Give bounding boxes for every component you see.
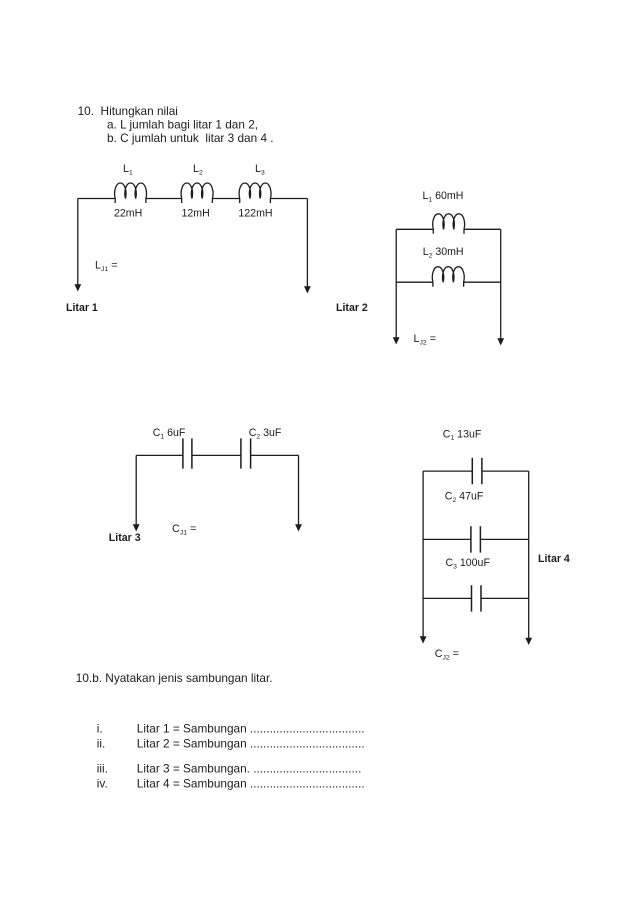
svg-text:10.b. Nyatakan jenis sambungan: 10.b. Nyatakan jenis sambungan litar.: [76, 671, 273, 685]
wire: Litar 4 left vertical with arrow: [422, 471, 424, 637]
inductor L2 (30mH): [432, 267, 464, 287]
svg-text:i.: i.: [97, 722, 103, 736]
svg-text:Litar 4: Litar 4: [538, 553, 570, 565]
wire: Litar 1 left vertical with arrow: [77, 199, 79, 286]
svg-text:L2 30mH: L2 30mH: [423, 246, 464, 259]
svg-text:122mH: 122mH: [238, 208, 272, 220]
svg-text:ii.: ii.: [97, 736, 106, 750]
svg-text:b. C jumlah untuk litar 3 dan: b. C jumlah untuk litar 3 dan 4 .: [107, 131, 274, 145]
wire: Litar 2 top branch horizontals: [396, 228, 501, 230]
svg-text:CJ1 =: CJ1 =: [172, 523, 196, 537]
svg-text:LJ2 =: LJ2 =: [414, 333, 437, 347]
svg-text:C2 3uF: C2 3uF: [249, 427, 282, 440]
wire: Litar 1 right vertical with arrow: [306, 199, 308, 288]
svg-text:iii.: iii.: [97, 761, 108, 775]
wire: Litar 3 horizontal segments: [136, 454, 298, 456]
svg-text:C1 13uF: C1 13uF: [443, 428, 482, 441]
svg-text:a. L jumlah bagi litar 1 dan 2: a. L jumlah bagi litar 1 dan 2,: [107, 118, 258, 132]
svg-text:LJ1 =: LJ1 =: [95, 260, 118, 274]
capacitor C2 plates: [241, 438, 251, 468]
wire: Litar 2 right vertical with arrow: [500, 229, 502, 339]
svg-text:Litar 1 = Sambungan ..........: Litar 1 = Sambungan ....................…: [137, 722, 365, 736]
svg-text:L1: L1: [123, 163, 133, 177]
inductor L3: [239, 183, 271, 203]
svg-text:C2 47uF: C2 47uF: [445, 491, 484, 504]
svg-text:12mH: 12mH: [182, 208, 210, 220]
wire: Litar 3 left vertical with arrow: [135, 455, 137, 525]
svg-text:L2: L2: [193, 163, 203, 177]
svg-text:iv.: iv.: [97, 776, 108, 790]
inductor L1 (60mH): [433, 214, 465, 234]
svg-text:Litar 3 = Sambungan. .........: Litar 3 = Sambungan. ...................…: [137, 761, 362, 775]
wire: Litar 4 right vertical with arrow: [528, 471, 530, 639]
wire: Litar 1 top horizontal segments: [78, 198, 308, 200]
svg-text:Litar 1: Litar 1: [66, 302, 98, 314]
svg-text:C1 6uF: C1 6uF: [153, 427, 186, 440]
svg-text:Litar 4 = Sambungan ..........: Litar 4 = Sambungan ....................…: [137, 776, 365, 790]
capacitor C3 plates: [472, 585, 482, 611]
svg-text:10. Hitungkan nilai: 10. Hitungkan nilai: [78, 104, 178, 118]
svg-text:Litar 3: Litar 3: [109, 532, 141, 544]
capacitor C2 plates: [471, 526, 481, 552]
wire: Litar 4 top branch horizontals: [423, 470, 529, 472]
wire: Litar 2 left vertical with arrow: [395, 229, 397, 338]
wire: Litar 4 bottom branch horizontals: [423, 597, 529, 599]
svg-text:C3 100uF: C3 100uF: [446, 557, 491, 570]
svg-text:CJ2 =: CJ2 =: [435, 648, 459, 662]
svg-text:L1 60mH: L1 60mH: [423, 190, 464, 203]
wire: Litar 4 middle branch horizontals: [423, 538, 529, 540]
inductor L1: [115, 183, 147, 203]
capacitor C1 plates: [472, 458, 482, 484]
wire: Litar 3 right vertical with arrow: [298, 455, 300, 525]
svg-text:L3: L3: [255, 163, 265, 177]
svg-text:22mH: 22mH: [114, 208, 142, 220]
wire: Litar 2 middle branch horizontals: [396, 281, 501, 283]
svg-text:Litar 2 = Sambungan ..........: Litar 2 = Sambungan ....................…: [137, 736, 365, 750]
inductor L2: [181, 183, 213, 203]
svg-text:Litar 2: Litar 2: [336, 302, 368, 314]
capacitor C1 plates: [183, 438, 192, 468]
